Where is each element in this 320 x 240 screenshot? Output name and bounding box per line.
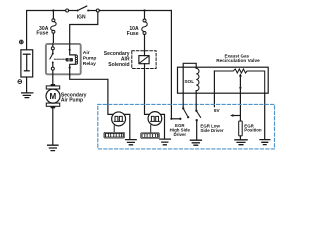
svg-text:Relay: Relay (83, 61, 96, 67)
relay switch contacts (52, 32, 54, 34)
ground EGR low side driver (190, 140, 201, 145)
driver label Q1 (104, 132, 125, 138)
transistor Q2 secondary air solenoid driver (148, 112, 162, 126)
wire Q1 source to ground (125, 114, 130, 139)
wire solenoid to ECM driver (145, 51, 149, 115)
svg-text:Fuse: Fuse (36, 31, 48, 37)
svg-text:Side Driver: Side Driver (200, 128, 223, 133)
EGR position signal arrow (233, 115, 240, 117)
relay coil (70, 44, 76, 55)
svg-text:M: M (50, 92, 57, 101)
svg-text:Air Pump: Air Pump (61, 98, 83, 104)
ground pot low (260, 140, 270, 145)
ground Q2 (160, 139, 171, 145)
EGR solenoid winding SOL (183, 63, 196, 93)
motor Secondary Air Pump (50, 84, 55, 86)
relay actuator dashed link (54, 58, 65, 60)
ground EGR position (235, 140, 247, 145)
fuse 30A (52, 11, 54, 19)
wire switched battery feed to EGR high side driver (170, 11, 172, 119)
wire Q2 source to ground (161, 114, 165, 138)
wire battery to ground (26, 77, 28, 92)
EGR valve box (178, 67, 269, 93)
node 10A fuse tap (143, 9, 145, 11)
svg-text:Solenoid: Solenoid (108, 62, 129, 68)
battery (21, 50, 33, 77)
ignition switch IGN (66, 9, 69, 12)
svg-text:Air: Air (83, 50, 90, 56)
ground secondary air pump (48, 145, 58, 150)
wire pot low to ground (264, 93, 266, 139)
switch EGR high side driver (171, 118, 180, 120)
relay armature core (66, 58, 73, 62)
node 30A fuse tap (52, 9, 54, 11)
wiper arrow (239, 76, 241, 121)
wire top rail left segment (27, 11, 66, 50)
svg-text:IGN: IGN (77, 15, 86, 21)
svg-text:Fuse: Fuse (127, 31, 139, 37)
ECM box (98, 104, 275, 148)
wire motor to ground (52, 108, 54, 145)
svg-text:Position: Position (244, 128, 262, 133)
solenoid box Secondary AIR Solenoid (132, 51, 156, 69)
resistor EGR position pull-down (239, 121, 243, 136)
wire relay coil to ECM driver (70, 75, 113, 114)
switch EGR low side driver (195, 93, 197, 110)
svg-text:Recirculation Valve: Recirculation Valve (216, 58, 260, 64)
driver label Q2 (140, 132, 159, 138)
EGR position potentiometer (214, 69, 264, 93)
svg-text:Driver: Driver (173, 132, 186, 137)
transistor Q1 air pump relay driver (112, 112, 126, 126)
node battery positive (19, 40, 23, 44)
node battery negative (18, 80, 22, 84)
relay box Air Pump Relay (46, 44, 81, 74)
ground battery (22, 93, 33, 98)
ground Q1 (126, 140, 137, 145)
wire IGN drop to relay coil (70, 12, 98, 44)
wire 5V reference (213, 71, 215, 107)
svg-text:5V: 5V (214, 108, 221, 113)
svg-text:SOL: SOL (184, 79, 194, 85)
svg-text:Pump: Pump (83, 56, 97, 62)
wire relay switch to motor (52, 70, 54, 84)
fuse 10A (144, 11, 146, 20)
svg-text:Exaust Gas: Exaust Gas (225, 54, 250, 59)
wire top rail right segment (99, 10, 171, 12)
